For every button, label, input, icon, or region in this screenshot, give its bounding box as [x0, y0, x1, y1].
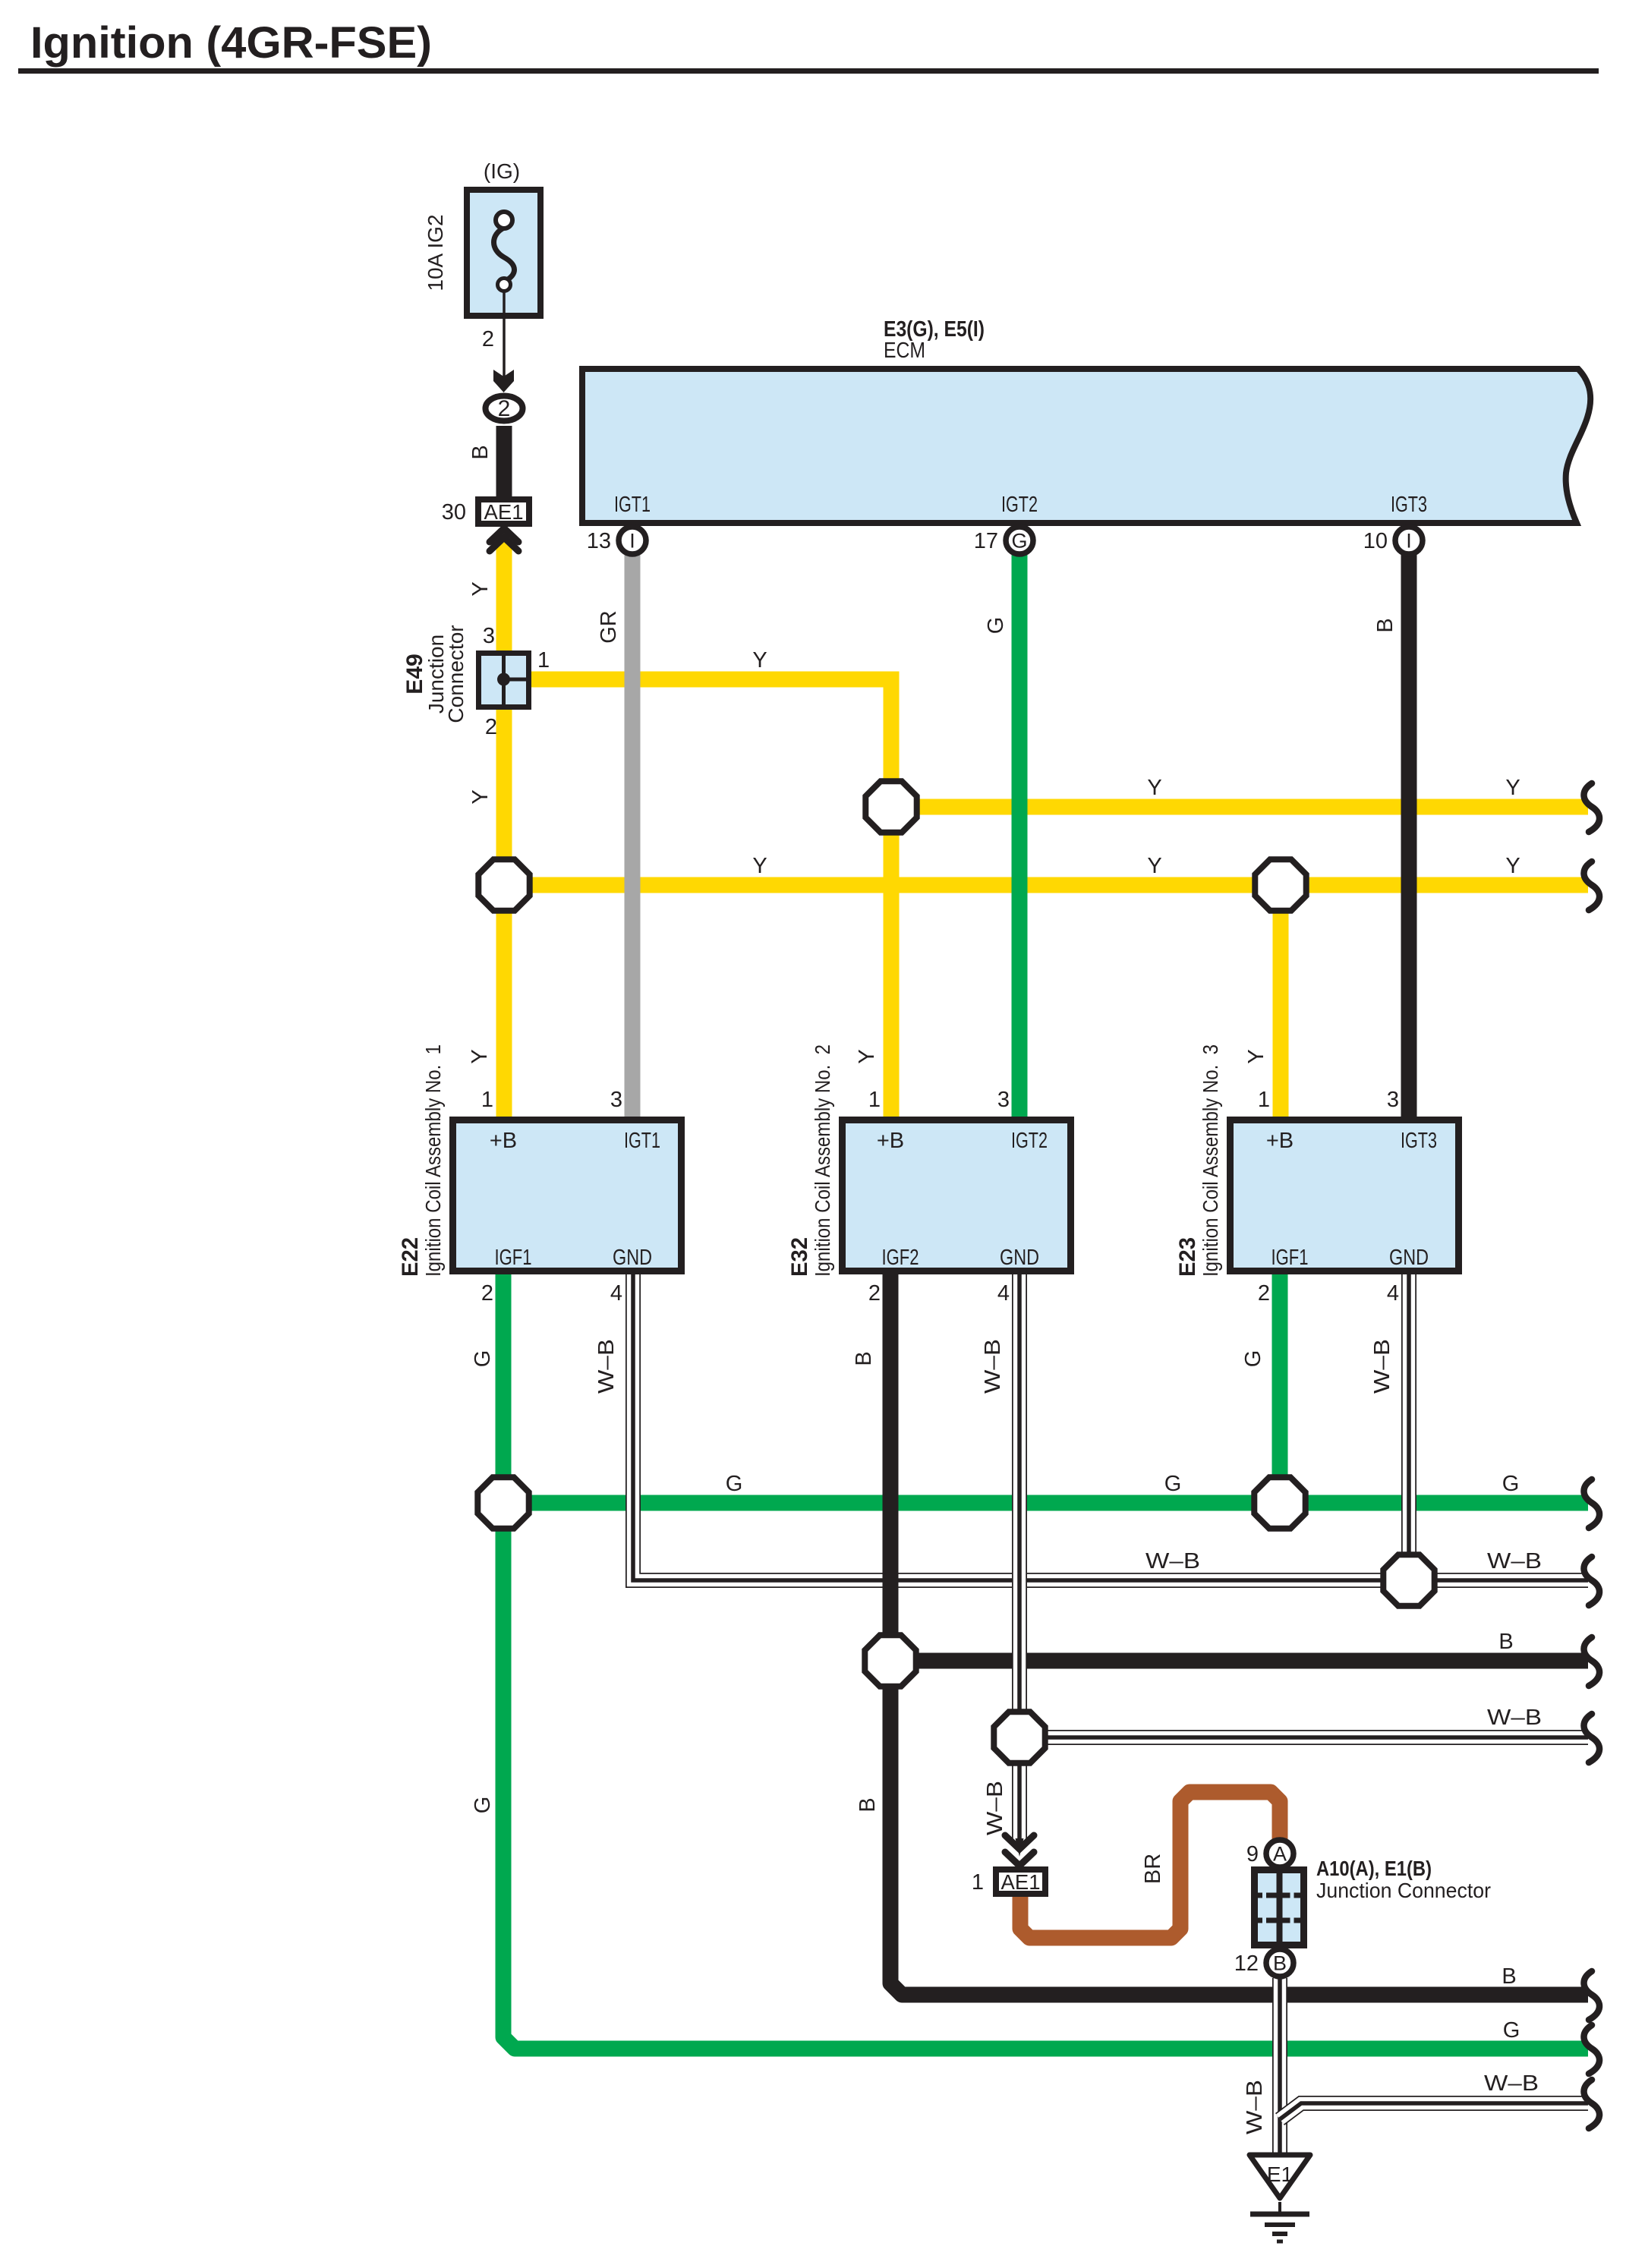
connector oval 2	[486, 396, 523, 421]
chevrons above AE1 (down)	[1005, 1835, 1034, 1866]
svg-text:AE1: AE1	[484, 500, 524, 524]
svg-text:W–B: W–B	[1370, 1339, 1394, 1394]
junction connector A10(A), E1(B)	[1255, 1870, 1304, 1945]
junction J6 (W-B)	[1383, 1555, 1434, 1605]
svg-text:GND: GND	[613, 1246, 652, 1270]
svg-text:Y: Y	[468, 581, 493, 596]
svg-text:+B: +B	[1266, 1129, 1294, 1153]
svg-text:17: 17	[974, 529, 998, 553]
svg-text:ECM: ECM	[884, 339, 925, 363]
svg-text:Ignition Coil Assembly No. 1: Ignition Coil Assembly No. 1	[421, 1044, 445, 1277]
svg-text:Y: Y	[1147, 776, 1161, 800]
svg-text:4: 4	[1387, 1281, 1399, 1306]
junction J1 (Y)	[478, 859, 529, 910]
wire B ECM IGT3 to coil3 IGT3	[1401, 554, 1417, 1120]
ground E1	[1249, 2155, 1310, 2198]
svg-text:Y: Y	[1505, 854, 1520, 878]
svg-text:1: 1	[972, 1870, 984, 1895]
svg-text:Y: Y	[1147, 854, 1161, 878]
svg-text:W–B: W–B	[1484, 2071, 1539, 2096]
svg-text:10: 10	[1363, 529, 1388, 553]
wire W-B coil3 GND to junction J6	[1401, 1271, 1416, 1580]
svg-text:B: B	[1502, 1964, 1516, 1989]
arrow into connector 2	[493, 370, 514, 392]
ignition coil assembly E22 No. 1	[453, 1120, 682, 1271]
wire W-B bus to break	[1019, 1730, 1588, 1745]
svg-text:Y: Y	[752, 854, 767, 878]
wire W-B junction connector B to ground E1	[1272, 1978, 1287, 2154]
junction J7 (B)	[865, 1635, 915, 1686]
relay block connector AE1 pin 30	[478, 499, 529, 524]
wire B oval to AE1	[496, 426, 512, 498]
junction connector pin 9 A	[1266, 1840, 1294, 1867]
svg-text:IGT3: IGT3	[1401, 1129, 1437, 1153]
fuse 10A IG2	[467, 190, 540, 316]
svg-text:IGT1: IGT1	[614, 493, 651, 517]
svg-text:1: 1	[481, 1088, 493, 1112]
svg-text:Ignition (4GR-FSE): Ignition (4GR-FSE)	[30, 18, 432, 68]
wire G bus middle to break	[503, 1495, 1588, 1511]
svg-text:2: 2	[481, 1281, 493, 1306]
svg-text:G: G	[471, 1797, 495, 1814]
ignition coil assembly E23 No. 3	[1231, 1120, 1459, 1271]
svg-text:IGT3: IGT3	[1391, 493, 1427, 517]
svg-text:Connector: Connector	[444, 625, 468, 723]
svg-text:2: 2	[485, 715, 497, 739]
svg-text:4: 4	[997, 1281, 1010, 1306]
svg-text:B: B	[1498, 1630, 1513, 1654]
svg-text:BR: BR	[1141, 1854, 1165, 1884]
ignition coil assembly E32 No. 2	[843, 1120, 1071, 1271]
svg-text:Y: Y	[468, 789, 493, 804]
junction J2 (Y)	[865, 781, 916, 832]
svg-text:I: I	[1406, 530, 1412, 553]
svg-text:4: 4	[610, 1281, 622, 1306]
svg-text:W–B: W–B	[1145, 1549, 1200, 1573]
break symbol Y bus1	[1584, 783, 1600, 832]
svg-text:B: B	[1273, 1952, 1287, 1975]
svg-text:A: A	[1273, 1843, 1287, 1866]
svg-text:E22: E22	[398, 1237, 423, 1277]
wire G ECM IGT2 to coil2 IGT2	[1012, 554, 1028, 1120]
ECM pin 10 IGT3	[1395, 527, 1423, 554]
svg-text:W–B: W–B	[1243, 2080, 1267, 2134]
break symbol W-B bus	[1584, 1557, 1600, 1605]
ECM pin 13 IGT1	[619, 527, 646, 554]
ECM E3(G), E5(I)	[582, 369, 1590, 523]
svg-text:30: 30	[442, 500, 466, 524]
svg-text:GND: GND	[1389, 1246, 1429, 1270]
svg-text:Ignition Coil Assembly No. 3: Ignition Coil Assembly No. 3	[1199, 1044, 1222, 1277]
svg-text:10A IG2: 10A IG2	[424, 214, 447, 291]
svg-text:G: G	[1503, 2018, 1520, 2043]
wire W-B coil1 GND down, W-B bus to break	[633, 1271, 1588, 1580]
svg-text:A10(A), E1(B): A10(A), E1(B)	[1316, 1857, 1432, 1880]
wire Y bus lower to break	[504, 877, 1588, 893]
svg-text:Y: Y	[1244, 1049, 1268, 1063]
svg-text:9: 9	[1246, 1842, 1259, 1866]
svg-text:IGT2: IGT2	[1001, 493, 1038, 517]
junction J8 (W-B)	[994, 1712, 1045, 1762]
svg-text:1: 1	[868, 1088, 881, 1112]
svg-text:B: B	[1373, 618, 1398, 632]
wire Y arrow tip below AE1	[496, 540, 512, 551]
svg-text:G: G	[1164, 1472, 1182, 1496]
wire from fuse pin 2	[503, 291, 506, 377]
svg-text:Y: Y	[855, 1049, 879, 1063]
svg-text:12: 12	[1234, 1951, 1259, 1976]
svg-text:GR: GR	[597, 610, 621, 644]
break symbol B bus	[1584, 1637, 1600, 1686]
wire W-B stripe tip into AE1 arrow	[1013, 1838, 1026, 1849]
svg-text:IGT1: IGT1	[624, 1129, 660, 1153]
svg-text:AE1: AE1	[1001, 1870, 1041, 1894]
svg-text:W–B: W–B	[594, 1339, 619, 1394]
svg-text:+B: +B	[490, 1129, 517, 1153]
svg-text:GND: GND	[1000, 1246, 1039, 1270]
svg-text:Y: Y	[468, 1049, 492, 1063]
svg-text:3: 3	[997, 1088, 1010, 1112]
wire G coil1 IGF1 down and G bus bottom to break	[503, 1271, 1588, 2049]
break symbol G bottom bus	[1584, 2025, 1600, 2074]
svg-text:I: I	[629, 530, 635, 553]
relay block connector AE1 pin 1	[996, 1870, 1045, 1894]
wire GR ECM IGT1 to coil1 IGT1	[625, 554, 641, 1120]
wire B bus middle to break	[890, 1653, 1588, 1669]
junction J3 (Y)	[1255, 859, 1306, 910]
svg-text:E32: E32	[787, 1237, 812, 1277]
svg-text:G: G	[1241, 1350, 1265, 1368]
wire G coil3 IGF1 to junction J5	[1272, 1271, 1288, 1503]
svg-text:IGF2: IGF2	[882, 1246, 919, 1270]
svg-text:E1: E1	[1267, 2162, 1293, 2186]
svg-text:G: G	[1502, 1472, 1520, 1496]
svg-text:IGF1: IGF1	[495, 1246, 532, 1270]
wire Y E49 pin1 to junction J2 to coil2 +B	[530, 679, 891, 1123]
wire Y bus upper to break	[891, 799, 1588, 815]
svg-text:W–B: W–B	[1487, 1706, 1542, 1730]
svg-text:1: 1	[537, 648, 550, 673]
svg-text:(IG): (IG)	[484, 159, 520, 183]
break symbol G bus	[1584, 1479, 1600, 1528]
svg-text:1: 1	[1258, 1088, 1270, 1112]
svg-text:G: G	[471, 1350, 495, 1368]
svg-text:Y: Y	[752, 648, 767, 673]
svg-text:B: B	[468, 445, 493, 459]
svg-text:Y: Y	[1505, 776, 1520, 800]
svg-text:E23: E23	[1175, 1237, 1200, 1277]
wire W-B coil2 GND down to AE1 arrow	[1012, 1271, 1027, 1840]
wire W-B branch to break	[1280, 2103, 1588, 2119]
break symbol Y bus2	[1584, 862, 1600, 910]
svg-text:2: 2	[498, 396, 511, 421]
svg-text:W–B: W–B	[983, 1781, 1007, 1835]
svg-text:B: B	[852, 1351, 876, 1366]
svg-text:IGF1: IGF1	[1271, 1246, 1309, 1270]
svg-text:2: 2	[1258, 1281, 1270, 1306]
chevrons below AE1	[490, 528, 518, 551]
svg-text:B: B	[856, 1797, 880, 1812]
svg-text:3: 3	[483, 624, 495, 648]
break symbol W-B bottom bus	[1584, 2080, 1600, 2128]
wire BR AE1 to junction connector A	[1020, 1792, 1280, 1938]
svg-text:+B: +B	[877, 1129, 904, 1153]
svg-text:G: G	[984, 617, 1008, 635]
junction connector E49	[479, 654, 529, 707]
junction J4 (G)	[477, 1477, 528, 1528]
svg-text:2: 2	[482, 327, 494, 351]
wire Y fuse/AE1 to E49 to junction J1 to coil1 +B	[496, 540, 512, 1123]
svg-text:W–B: W–B	[981, 1339, 1005, 1394]
svg-text:2: 2	[868, 1281, 881, 1306]
wire B coil2 IGF2 down and B bus bottom to break	[890, 1271, 1588, 1995]
svg-text:3: 3	[1387, 1088, 1399, 1112]
svg-text:13: 13	[587, 529, 611, 553]
svg-text:Ignition Coil Assembly No. 2: Ignition Coil Assembly No. 2	[811, 1044, 834, 1277]
break symbol B bottom bus	[1584, 1971, 1600, 2020]
svg-text:3: 3	[610, 1088, 622, 1112]
break symbol W-B bus2	[1584, 1714, 1600, 1762]
ECM pin 17 IGT2	[1006, 527, 1033, 554]
junction J5 (G)	[1254, 1477, 1305, 1528]
svg-text:IGT2: IGT2	[1011, 1129, 1048, 1153]
svg-text:Junction Connector: Junction Connector	[1316, 1879, 1491, 1902]
svg-text:W–B: W–B	[1487, 1549, 1542, 1573]
wire Y junction J3 to coil3 +B	[1273, 885, 1289, 1123]
svg-text:G: G	[726, 1472, 743, 1496]
svg-text:G: G	[1011, 530, 1027, 553]
junction connector pin 12 B	[1266, 1949, 1294, 1977]
